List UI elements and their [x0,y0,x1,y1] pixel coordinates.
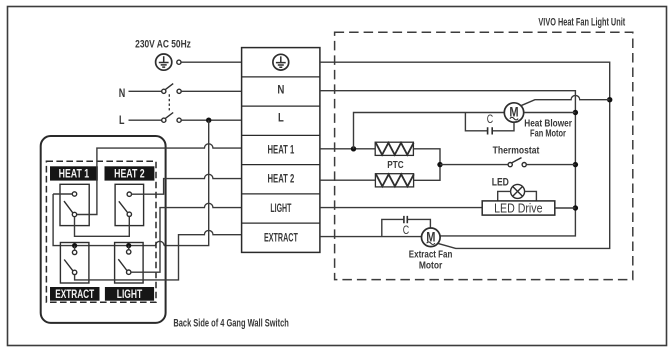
label HEAT 1 (wall switch) [50,166,98,180]
svg-text:Fan Motor: Fan Motor [530,128,566,140]
motor heat blower M1 [504,103,523,122]
wire thermostat to N bus [526,164,575,166]
wire N bus (terminal to unit, down to extract motor) [320,91,576,236]
wire EXTRACT output to terminal (hops L feed) [75,230,242,280]
wire HEAT1 output to terminal (hops L feed) [77,144,242,215]
node N dot at LED drive [573,205,578,210]
wire hop of L feed over LIGHT riser [156,241,165,245]
wall switch enclosure (4 gang) [41,136,166,323]
wire HEAT1 into unit [320,148,375,150]
earth supply symbol [156,54,172,70]
wire L to switch [129,119,162,121]
svg-text:C: C [487,114,493,126]
wire stub to LIGHT switch top [128,246,130,250]
label LIGHT (wall switch) [105,287,154,301]
wire HEAT2 output to terminal (hops L feed) [132,174,242,194]
switch L (double-pole half) [162,113,182,123]
node HEAT1 branch dot [351,146,356,151]
wire EXTRACT into unit [320,236,422,238]
svg-text:Motor: Motor [419,260,443,272]
switch EXTRACT (wall) [60,243,89,284]
svg-text:LED Drive: LED Drive [494,201,542,216]
svg-text:LIGHT: LIGHT [117,287,143,301]
svg-text:L: L [119,113,125,127]
label EXTRACT (wall switch) [50,287,100,301]
earth supply open terminal [177,60,181,64]
wire junction to thermostat [440,164,508,166]
svg-text:EXTRACT: EXTRACT [55,287,94,301]
wire HEAT1 bottoms tie (U link to HEAT2) [75,217,130,237]
svg-text:LED: LED [492,177,509,189]
svg-text:C: C [403,225,409,237]
wire PTC2 out to junction [414,165,440,181]
ganged switch tie (dashed) [168,94,170,110]
wire LED legs to LED Drive [498,191,537,201]
wire L switch to terminal block [181,119,241,121]
wire LIGHT output to terminal (hops L feed) [131,203,242,272]
lamp LED [511,184,525,198]
wire HEAT2 into unit [320,179,376,181]
svg-text:N: N [119,86,126,100]
wire L feed down to wall switch common [53,120,209,245]
capacitor C1 bracket wires [465,113,514,131]
capacitor C2 bracket wires [382,219,431,236]
svg-text:N: N [277,83,284,97]
wire LED Drive to N bus [555,207,576,209]
switch HEAT2 (wall) [115,184,144,225]
switch LIGHT (wall) [115,243,144,284]
thermostat switch [508,158,526,167]
resistor PTC1 [375,142,413,155]
wire stub to EXTRACT switch top [74,246,76,251]
svg-text:L: L [278,110,284,124]
resistor PTC2 [375,174,413,187]
svg-text:HEAT 1: HEAT 1 [268,142,295,156]
wire HEAT1 switch top to feed riser [53,193,72,195]
VIVO unit dashed enclosure [335,32,633,279]
box LED Drive [482,201,555,215]
wire earth bus (terminal to unit, down right side, to extract motor chassis) [320,62,610,248]
node dot LIGHT feed [126,243,131,248]
switch HEAT1 (wall) [60,184,89,225]
terminal earth symbol [273,54,289,70]
wire earth supply to terminal block [181,61,241,63]
wall switch inner dashed boundary [46,161,156,302]
svg-text:PTC: PTC [387,159,404,171]
node L junction dot [206,118,211,123]
capacitor C2 plates [404,216,407,223]
svg-text:LIGHT: LIGHT [270,201,291,215]
svg-text:230V AC 50Hz: 230V AC 50Hz [135,38,191,50]
wire motor M1 to N bus [524,112,576,114]
svg-text:HEAT 2: HEAT 2 [268,172,295,186]
node dot EXTRACT feed [72,243,77,248]
svg-text:Back Side of 4 Gang Wall Switc: Back Side of 4 Gang Wall Switch [173,317,288,329]
wire PTC1 out to junction [413,149,440,165]
wire LIGHT into LED Drive [320,207,482,209]
capacitor C1 plates [488,127,493,134]
wire N to switch [129,90,162,92]
node N dot at heat motor [573,110,578,115]
motor extract M2 [422,228,441,247]
terminal block row separators [242,77,320,223]
node N dot at thermostat [573,162,578,167]
svg-text:EXTRACT: EXTRACT [264,231,298,245]
wire HEAT1 branch to heat blower motor [354,113,505,149]
label HEAT 2 (wall switch) [105,166,155,180]
svg-text:VIVO Heat Fan Light Unit: VIVO Heat Fan Light Unit [538,17,625,29]
svg-text:HEAT 1: HEAT 1 [59,167,90,181]
wire motor M1 chassis to earth bus (hops N bus) [521,95,610,105]
wire N switch to terminal block [181,90,241,92]
svg-text:HEAT 2: HEAT 2 [114,167,145,181]
node PTC junction dot [437,162,442,167]
terminal block [242,48,320,253]
switch N (double-pole half) [162,84,182,94]
node earth bus dot [607,97,612,102]
svg-text:Thermostat: Thermostat [493,144,540,156]
